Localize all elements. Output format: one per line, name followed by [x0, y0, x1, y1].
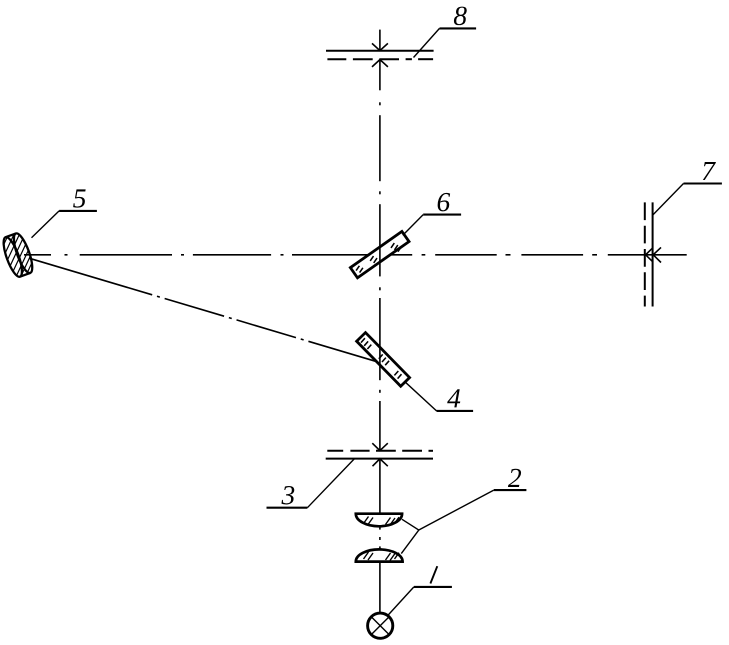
- hatch marks of plate 4: [361, 338, 402, 378]
- leader and label 7: [652, 184, 722, 216]
- diaphragm 3 : solid plane line: [326, 458, 433, 460]
- leader and label 1: [388, 566, 452, 615]
- beam splitter plate 6: [350, 231, 409, 277]
- leader and label 2 (forked to both lenses): [401, 490, 526, 553]
- folding mirror plate 4: [357, 333, 410, 387]
- screen 7 : dashed vertical plane line: [644, 202, 646, 306]
- arrowheads on horizontal axis at screen 7: [646, 247, 661, 262]
- screen 8 : dashed plane line: [327, 58, 433, 60]
- horizontal optical axis (centerline from mirror 5 to screen 7): [24, 254, 687, 256]
- diagonal centerline from mirror 5 to mirror 4: [30, 258, 378, 362]
- arrowheads on vertical axis at screen 8: [372, 43, 388, 67]
- arrowheads on vertical axis at diaphragm 3: [372, 443, 388, 466]
- mirror 5 (tilted disk): [0, 224, 41, 287]
- leader and label 6: [403, 215, 461, 236]
- leader and label 4: [406, 382, 474, 411]
- leader and label 3: [267, 459, 355, 508]
- hatch marks of lens 2b: [364, 552, 400, 561]
- screen 7 : solid vertical plane line: [652, 202, 654, 306]
- diaphragm 3 : dashed plane line: [327, 450, 433, 452]
- vertical optical axis (centerline from source 1 up to screen 8): [379, 30, 381, 614]
- leader and label 8: [414, 28, 477, 57]
- centerline dashes between lenses: [379, 526, 381, 549]
- condenser lens 2b (lower, plano-convex flat bottom): [356, 549, 403, 561]
- light source 1 (circle with cross): [368, 613, 393, 638]
- leader and label 5: [32, 211, 97, 238]
- screen 8 : solid image plane line: [326, 50, 434, 52]
- hatch marks of plate 6: [356, 243, 401, 273]
- condenser lens 2a (upper, plano-convex flat top): [356, 514, 402, 527]
- hatch marks of lens 2a: [364, 517, 400, 526]
